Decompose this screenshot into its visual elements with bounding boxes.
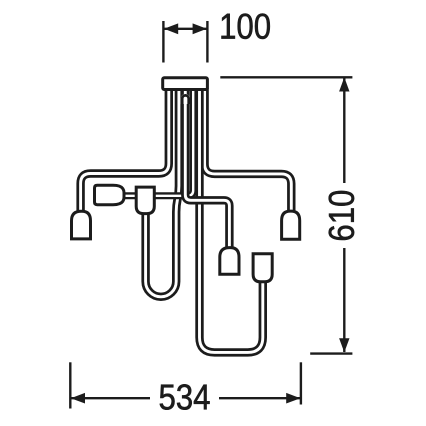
socket E27 center (down) (220, 248, 239, 275)
dimension 100: left extension line (162, 21, 164, 63)
dimension 100: left arrowhead (164, 23, 178, 34)
dimension 610: bottom arrowhead (339, 338, 349, 352)
socket E27 horizontal-left (pointing left) (95, 185, 125, 204)
socket E27 mid-left (up) (136, 187, 154, 214)
dimension 534: right extension line (300, 362, 302, 404)
wire: long bottom arm tube to bottom-right up socket (200, 88, 263, 352)
socket E27 far-right (down) (282, 211, 300, 239)
dimension 100: right arrowhead (193, 23, 207, 34)
dimension 534: label (160, 384, 210, 409)
wire: stem of horizontal-left socket bending up to canopy (96, 88, 193, 196)
dimension 100: label (221, 13, 269, 38)
dimension 534: left arrowhead (71, 393, 85, 404)
dimension 610: top extension line (220, 76, 352, 78)
dimension 100: right extension line (206, 21, 208, 63)
dimension 610: label (329, 191, 354, 240)
dimension 534: dimension line right segment (219, 397, 300, 399)
socket E27 far-left (down) (72, 211, 91, 239)
socket E27 bottom-right (up) (253, 254, 272, 282)
dimension 610: dimension line lower segment (343, 248, 345, 352)
hook loop below canopy (181, 94, 190, 104)
dimension 100: dimension line (164, 28, 207, 30)
dimension 610: dimension line upper segment (343, 77, 345, 183)
dimension 534: right arrowhead (286, 393, 300, 404)
dimension 534: left extension line (69, 362, 71, 408)
wire: center arm tube to center down socket (185, 88, 229, 248)
wire: right arm tube to far-right socket (205, 88, 292, 212)
wire: U-loop arm tube feeding mid-left up socket (146, 88, 179, 297)
dimension 610: bottom extension line (310, 352, 352, 354)
dimension 534: dimension line left segment (71, 397, 150, 399)
canopy (ceiling mount) (163, 78, 208, 90)
wire: left arm tube to far-left socket (81, 88, 169, 212)
dimension 610: top arrowhead (339, 77, 349, 91)
